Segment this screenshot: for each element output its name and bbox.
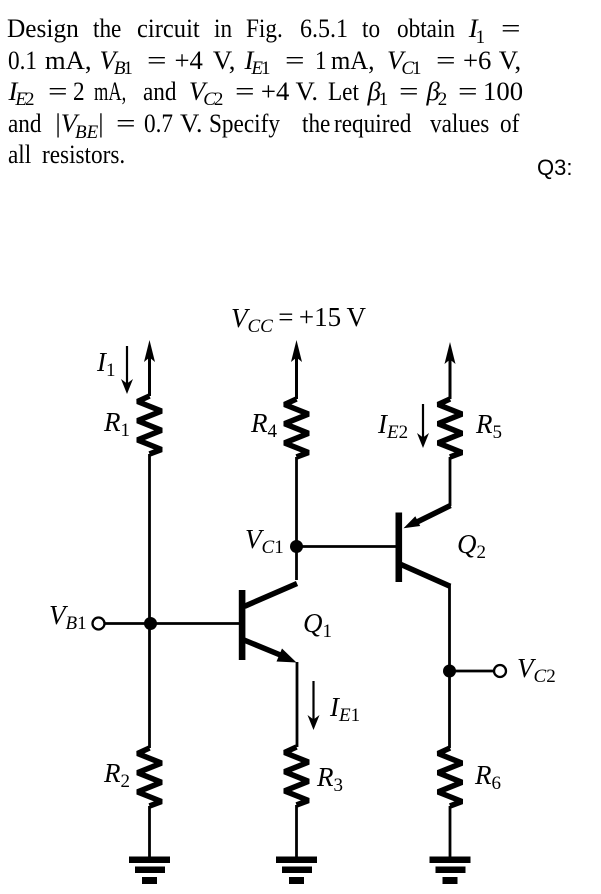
wire left rail R1 to R2 <box>148 454 151 748</box>
wire R6 to ground <box>449 806 452 858</box>
current arrow IE1 <box>312 681 314 721</box>
svg-text:VCC = +15 V: VCC = +15 V <box>231 302 367 337</box>
resistor R1 <box>138 396 162 454</box>
svg-text:I1: I1 <box>96 347 116 381</box>
resistor R5 <box>438 399 462 457</box>
resistor R3 <box>285 747 309 805</box>
resistor R2 <box>138 748 162 806</box>
current arrow IE2 <box>422 404 424 439</box>
wire Q2 collector to R6 <box>448 584 451 748</box>
svg-text:VC1: VC1 <box>245 524 284 558</box>
wire R3 to ground <box>295 805 298 858</box>
resistor R6 <box>438 748 462 806</box>
wire VC1 to Q2 base <box>297 545 397 548</box>
wire R2 to ground <box>148 806 151 858</box>
ground middle <box>276 857 317 885</box>
svg-text:R2: R2 <box>103 758 130 792</box>
supply arrow middle <box>295 357 298 399</box>
svg-text:Q2: Q2 <box>457 529 486 563</box>
ground right <box>430 857 471 885</box>
svg-text:IE1: IE1 <box>329 692 360 726</box>
supply arrow right <box>449 359 452 399</box>
resistor R4 <box>285 399 309 457</box>
wire Q1 emitter to R3 <box>296 662 299 747</box>
terminal VC2 <box>494 665 506 677</box>
wire VB1 to Q1 base <box>105 622 240 625</box>
svg-text:IE2: IE2 <box>377 409 408 443</box>
svg-text:Q1: Q1 <box>303 608 332 642</box>
label Q3: <box>537 155 572 181</box>
svg-text:R6: R6 <box>474 760 501 794</box>
junction node VC2 <box>443 665 456 678</box>
svg-text:R4: R4 <box>250 408 278 442</box>
svg-text:VB1: VB1 <box>49 600 87 634</box>
terminal VB1 <box>93 618 105 630</box>
transistor Q1 <box>239 584 297 663</box>
wire R4 to VC1 node and down to Q1 collector <box>295 457 298 580</box>
junction node VB1 <box>144 617 157 630</box>
wire R5 to Q2 emitter <box>449 457 452 506</box>
svg-text:R1: R1 <box>103 407 130 441</box>
ground left <box>129 857 170 885</box>
supply arrow left <box>148 357 151 396</box>
problem statement paragraph <box>0 0 601 200</box>
svg-text:R3: R3 <box>316 762 343 796</box>
node VC1 <box>290 540 303 553</box>
current arrow I1 <box>126 346 128 385</box>
svg-text:VC2: VC2 <box>517 653 556 687</box>
wire node to VC2 terminal <box>450 670 495 673</box>
svg-text:R5: R5 <box>475 409 502 443</box>
transistor Q2 <box>396 506 451 587</box>
